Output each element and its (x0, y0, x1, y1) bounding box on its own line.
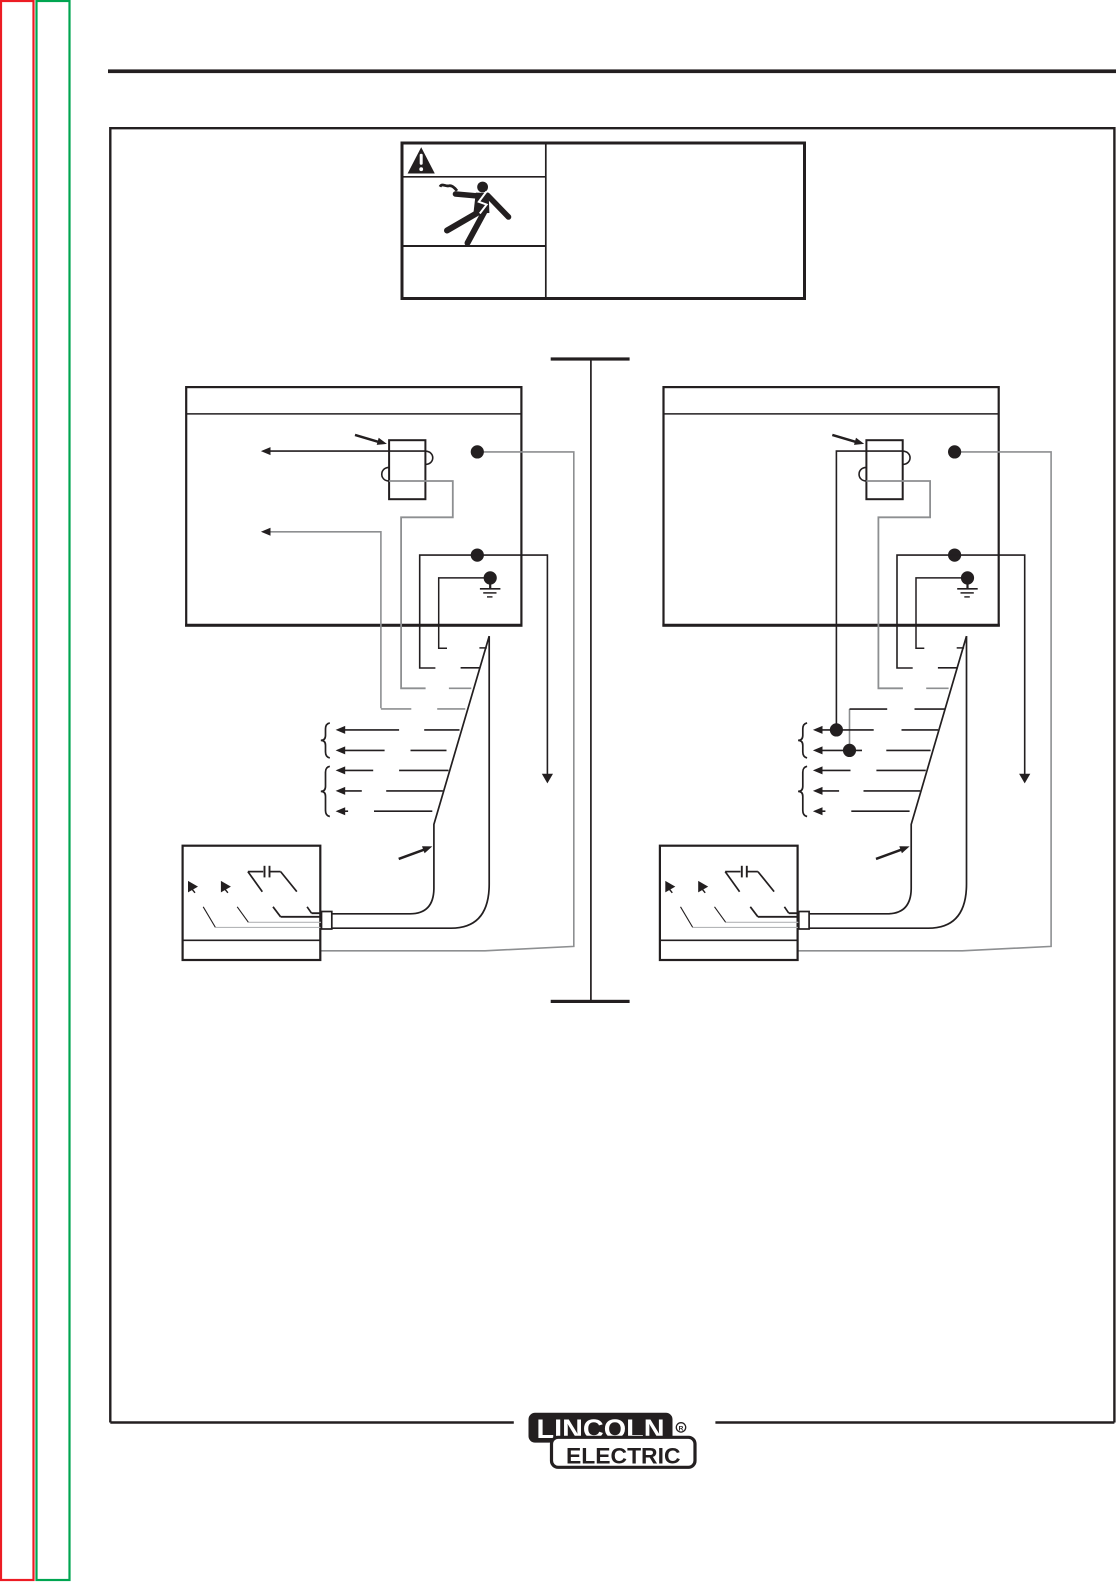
node dot B (left) (471, 549, 484, 562)
conductor 3 (right) (758, 916, 798, 918)
wire stub into cable row3 (right) (926, 687, 948, 689)
ground symbol (left) (480, 584, 501, 597)
wire stub into cable row1 (right) (957, 647, 964, 649)
wire receptacle to junction J1 (right) (836, 451, 866, 730)
conductor 4 (left) (312, 912, 322, 914)
cable outer outline (left) (332, 636, 489, 928)
receptacle left loop (right) (859, 467, 866, 481)
callout arrow to cable (left) (399, 846, 433, 859)
switch blade 2 (right) (715, 907, 726, 923)
page frame bottom right segment (715, 1421, 1114, 1423)
connector box band line (left) (183, 939, 321, 941)
center divider top bar (551, 357, 630, 360)
switch blade 2 (left) (237, 907, 248, 923)
switch blade 3 (right) (750, 907, 758, 917)
row4 wire from junction J2 (right) (850, 709, 888, 750)
node dot A (right) (948, 445, 961, 458)
lead arrow row 2 (right) (813, 746, 931, 754)
wire node B to down arrow (right) (955, 555, 1031, 783)
warning box row divider 1 (402, 176, 546, 178)
welder case outline (right) (662, 387, 999, 625)
conductor 3 (left) (281, 916, 321, 918)
cable inner outline (left) (332, 636, 489, 914)
receptacle right loop (left) (425, 451, 432, 464)
wire ground node to cable (left) (439, 578, 491, 648)
junction J2 dot (right) (843, 744, 856, 757)
wire node B to down arrow (left) (477, 555, 553, 783)
callout arrow to cable (right) (876, 846, 910, 859)
callout arrow to plug (right) (832, 435, 864, 445)
capacitor switch symbol (right) (725, 866, 774, 892)
wire node B left to cable (left) (420, 555, 478, 668)
receptacle block (left) (389, 440, 425, 499)
lead arrow row 4 (left) (336, 787, 443, 795)
wire stub into cable row3 (left) (449, 687, 471, 689)
conductor 2 (left) (248, 921, 321, 923)
capacitor switch symbol (left) (248, 866, 297, 892)
conductor 1 (left) (215, 926, 320, 928)
wire stub into cable row2 (left) (461, 667, 481, 669)
connector box (right) (660, 846, 798, 960)
svg-text:ELECTRIC: ELECTRIC (566, 1443, 681, 1468)
gray wire receptacle loop to cable (right) (866, 481, 930, 688)
cursor mark 2 (right) (698, 881, 708, 893)
wire ground node to cable (right) (916, 578, 968, 648)
conductor 2 (right) (726, 921, 799, 923)
lead arrow row 1 (left) (336, 726, 460, 734)
callout arrow to plug (left) (355, 435, 387, 445)
wire node B left to cable (right) (897, 555, 955, 668)
lead arrow row 4 (right) (813, 787, 920, 795)
brace group 1 (right) (798, 723, 807, 758)
cable plug (left) (322, 912, 332, 930)
svg-text:R: R (679, 1425, 684, 1432)
connector box (left) (183, 846, 321, 960)
center divider line (590, 359, 592, 1001)
wire stub into cable row4 (left) (437, 708, 465, 710)
switch blade 1 (left) (203, 907, 215, 928)
warning box frame (402, 143, 805, 299)
connector box band line (right) (660, 939, 798, 941)
cable inner outline (right) (809, 636, 966, 914)
node dot A (left) (471, 445, 484, 458)
ground node dot (right) (961, 571, 974, 584)
welder case header line (left) (186, 413, 521, 415)
lead arrow row 1 (right) (813, 726, 938, 734)
receptacle left loop (left) (382, 467, 389, 481)
Lincoln logo black badge (529, 1413, 673, 1443)
Lincoln logo registered mark (676, 1423, 685, 1433)
center divider bottom bar (551, 1000, 630, 1003)
switch blade 3 (left) (273, 907, 281, 917)
conductor 4 (right) (789, 912, 799, 914)
top rule (108, 69, 1116, 73)
welder case header line (right) (664, 413, 999, 415)
gray wire node A to connector (right) (798, 452, 1051, 951)
lead arrow row 5 (right) (813, 807, 910, 815)
cable plug (right) (799, 912, 809, 930)
node dot B (right) (948, 549, 961, 562)
ground node dot (left) (484, 571, 497, 584)
ground symbol (right) (957, 584, 978, 597)
junction J1 dot (right) (830, 723, 843, 736)
brace group 2 (left) (321, 766, 330, 816)
output lead arrow 1 (left) (261, 447, 389, 455)
gray wire node A to connector (left) (321, 452, 574, 951)
lead arrow row 5 (left) (336, 807, 433, 815)
cable outer outline (right) (809, 636, 966, 928)
switch blade 4 (right) (784, 907, 788, 913)
wire stub into cable row1 (left) (479, 647, 486, 649)
receptacle right loop (right) (903, 451, 910, 464)
lead arrow row 3 (right) (813, 766, 926, 774)
electric shock pictogram (440, 182, 509, 243)
green registration bar (37, 1, 70, 1580)
page frame bottom left segment (110, 1421, 514, 1423)
cursor mark 1 (right) (665, 881, 675, 893)
switch blade 1 (right) (681, 907, 693, 928)
Lincoln logo white badge (552, 1437, 696, 1467)
lead arrow row 2 (left) (336, 746, 447, 754)
Lincoln logo ELECTRIC text (566, 1443, 681, 1468)
wire stub into cable row2 (right) (938, 667, 958, 669)
warning box row divider 2 (402, 245, 546, 247)
switch blade 4 (left) (307, 907, 311, 913)
cursor mark 1 (left) (188, 881, 198, 893)
brace group 1 (left) (321, 723, 330, 758)
red registration bar (1, 1, 34, 1580)
warning triangle (408, 147, 435, 173)
conductor 1 (right) (693, 926, 798, 928)
Lincoln logo LINCOLN text (537, 1414, 665, 1444)
wire stub into cable row4 (right) (915, 708, 945, 710)
cursor mark 2 (left) (221, 881, 231, 893)
brace group 2 (right) (798, 766, 807, 816)
lead arrow row 3 (left) (336, 766, 449, 774)
warning box column divider (545, 143, 547, 299)
receptacle block (right) (866, 440, 902, 499)
gray wire receptacle loop to cable (left) (389, 481, 453, 688)
page frame (110, 128, 1114, 1422)
output lead arrow 2 (left) (261, 528, 411, 709)
welder case outline (left) (185, 387, 522, 625)
